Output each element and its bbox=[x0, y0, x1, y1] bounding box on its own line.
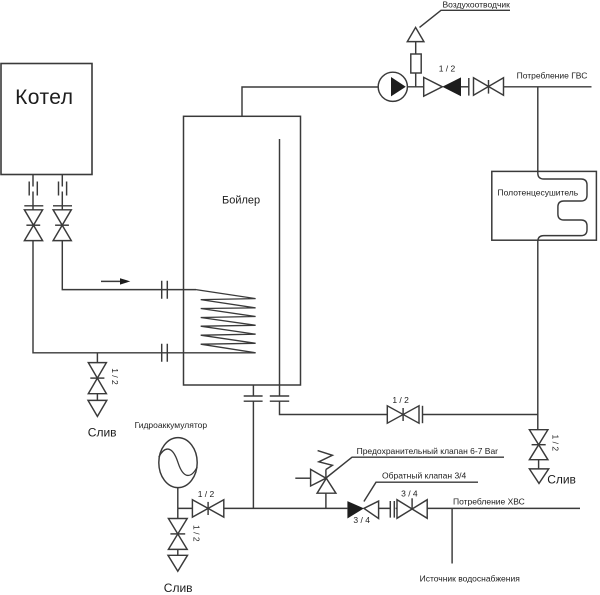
drain triangle (hydro) bbox=[168, 555, 188, 571]
boiler bottom right connection union bbox=[270, 396, 289, 401]
union on coil bottom line bbox=[162, 344, 168, 362]
wire: kotel left outlet pipe bbox=[32, 175, 34, 211]
svg-text:Предохранительный клапан 6-7 B: Предохранительный клапан 6-7 Bar bbox=[357, 446, 499, 456]
svg-text:Слив: Слив bbox=[88, 426, 117, 440]
valve V6 (1/2 on feed line) bbox=[387, 406, 422, 423]
wire between V3 and V4 bbox=[461, 86, 469, 88]
pump P1 bbox=[378, 72, 407, 101]
wire: kotel right outlet pipe bbox=[61, 175, 63, 211]
valve V9 (coil drain, vertical) bbox=[88, 363, 106, 394]
safety valve SV bbox=[295, 451, 336, 509]
wire below V8 bbox=[177, 549, 179, 555]
valve V3 (1/2 with filled right half) bbox=[424, 77, 461, 96]
heating coil bbox=[196, 290, 256, 353]
valve V2 (right kotel valve, vertical) bbox=[53, 206, 72, 241]
svg-text:Потребление ХВС: Потребление ХВС bbox=[453, 497, 525, 507]
svg-text:Обратный клапан 3/4: Обратный клапан 3/4 bbox=[382, 471, 467, 481]
flow arrow bbox=[101, 280, 121, 282]
wire: down, right to valve bbox=[280, 401, 388, 414]
svg-text:Бойлер: Бойлер bbox=[222, 195, 260, 207]
wire down to cold line bbox=[252, 401, 254, 508]
union (parallel-bar) on left kotel pipe bbox=[29, 182, 37, 196]
air vent branch wire bbox=[415, 42, 417, 87]
serpentine pipe through towel dryer bbox=[538, 87, 587, 430]
valve V4 (gate valve with left bar) bbox=[469, 78, 504, 96]
svg-text:1 / 2: 1 / 2 bbox=[192, 525, 202, 542]
wire below V9 bbox=[96, 394, 98, 401]
wire: pump outlet bbox=[407, 86, 423, 88]
boiler bottom left connection bbox=[252, 385, 254, 396]
valve V10 (3/4) bbox=[397, 498, 427, 518]
svg-text:1 / 2: 1 / 2 bbox=[198, 489, 215, 499]
check valve CV (3/4) bbox=[347, 501, 378, 518]
wire from V6 to towel drop bbox=[423, 414, 538, 416]
air vent triangle bbox=[407, 27, 424, 41]
hydroaccumulator bbox=[159, 438, 197, 488]
air vent body rect bbox=[411, 54, 421, 73]
union before V10 bbox=[390, 501, 394, 518]
svg-text:Потребление ГВС: Потребление ГВС bbox=[517, 70, 588, 80]
valve V8 (hydro drain, vertical) bbox=[168, 508, 187, 549]
leader line air vent bbox=[420, 10, 511, 27]
svg-text:Слив: Слив bbox=[547, 473, 576, 487]
wire: to GVS consumption bbox=[504, 86, 592, 88]
svg-text:1 / 2: 1 / 2 bbox=[551, 435, 561, 452]
dip tube inside tank bbox=[279, 139, 281, 396]
valve V5 (towel drain, vertical) bbox=[529, 430, 548, 460]
svg-text:Слив: Слив bbox=[164, 581, 193, 595]
leader check valve bbox=[364, 482, 478, 501]
svg-text:Источник водоснабжения: Источник водоснабжения bbox=[420, 573, 521, 583]
wire from hydro to cold line bbox=[177, 488, 179, 509]
svg-text:3 / 4: 3 / 4 bbox=[401, 488, 418, 498]
valve V7 (1/2 near hydro) bbox=[192, 500, 223, 517]
leader safety valve bbox=[326, 457, 504, 478]
Boiler (tank) box bbox=[184, 116, 301, 385]
drain triangle (coil line) bbox=[88, 400, 107, 416]
svg-text:Котел: Котел bbox=[15, 86, 73, 109]
valve V1 (left kotel valve, vertical) bbox=[24, 206, 43, 241]
svg-text:1 / 2: 1 / 2 bbox=[392, 395, 409, 405]
svg-text:Гидроаккумулятор: Гидроаккумулятор bbox=[135, 420, 208, 430]
wire: water source drop bbox=[451, 508, 453, 563]
wire: tank top pipe to pump bbox=[242, 87, 378, 116]
svg-text:Полотенцесушитель: Полотенцесушитель bbox=[498, 188, 579, 198]
cold water line bbox=[178, 507, 580, 509]
union (parallel-bar) on right kotel pipe bbox=[59, 182, 67, 196]
union bars bbox=[244, 396, 263, 401]
svg-text:3 / 4: 3 / 4 bbox=[353, 515, 370, 525]
coil line drain branch bbox=[96, 353, 98, 363]
svg-text:Воздухоотводчик: Воздухоотводчик bbox=[443, 0, 511, 10]
svg-text:1 / 2: 1 / 2 bbox=[110, 368, 120, 385]
membrane wave bbox=[159, 449, 197, 475]
wire below V5 bbox=[538, 460, 540, 469]
wire: right riser down and to coil top bbox=[62, 241, 196, 290]
wire: left riser down and to coil bottom bbox=[33, 241, 256, 353]
svg-text:1 / 2: 1 / 2 bbox=[439, 64, 456, 74]
union on coil top line bbox=[162, 281, 168, 299]
drain triangle (towel) bbox=[529, 469, 548, 484]
boiler (Kotel) box bbox=[1, 64, 92, 175]
towel dryer box bbox=[492, 171, 597, 240]
